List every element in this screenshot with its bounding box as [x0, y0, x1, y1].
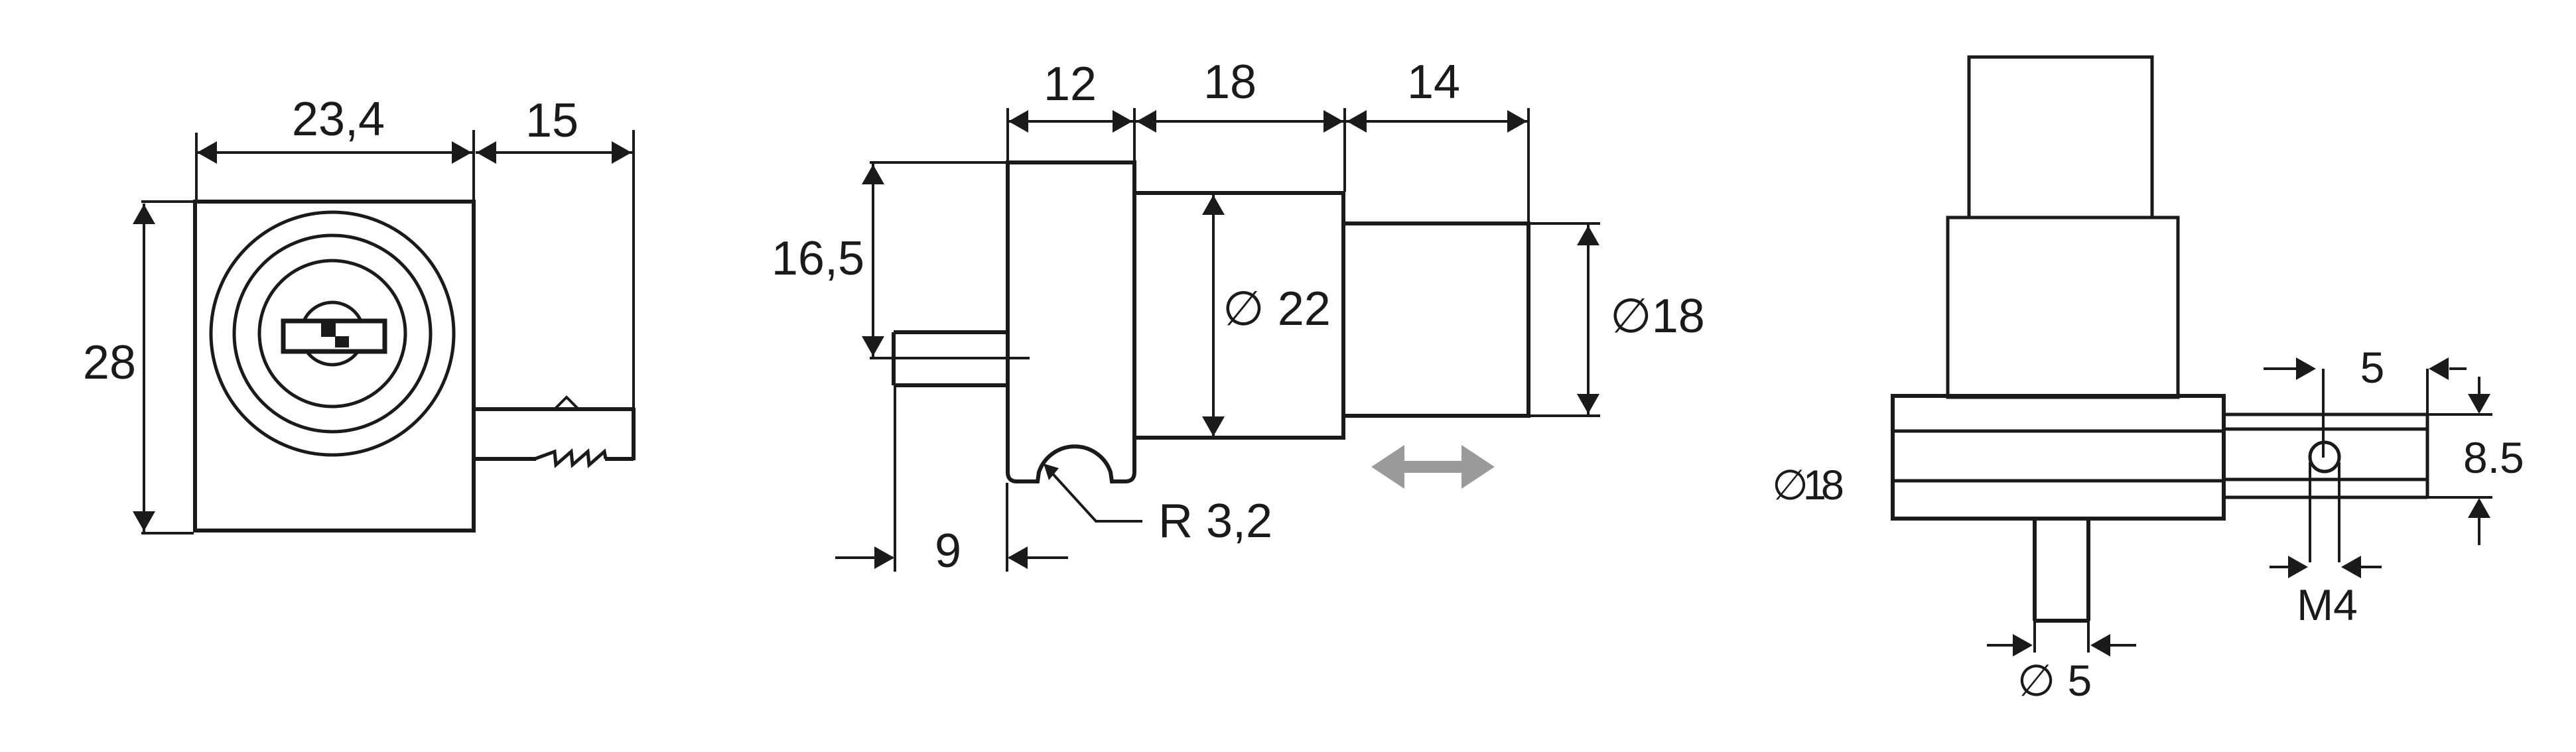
dim 5 centerline [2322, 369, 2325, 458]
front view: key slot upper ward block [321, 323, 336, 337]
top view: latch bar top extension [2427, 413, 2492, 416]
svg-text:∅ 5: ∅ 5 [2017, 656, 2092, 705]
dim 12 extension left [1006, 108, 1009, 161]
dim 18 left arrow [1136, 110, 1156, 133]
side view: latch tab mid line [870, 357, 1030, 359]
top view: key head block [1969, 57, 2152, 218]
front view: latch top edge [474, 407, 634, 411]
dim diam22 bottom arrow [1202, 416, 1225, 436]
dim diam18 line [1587, 225, 1590, 414]
R3.2 leader line [1049, 470, 1142, 521]
dim diam5 left tail [1987, 644, 2013, 647]
dim 18 right arrow [1323, 110, 1343, 133]
dim 14 right arrow [1507, 110, 1527, 133]
dim 9 extension left [894, 387, 896, 572]
top view: latch bar inner bottom line [2224, 478, 2427, 481]
top view: flange plate upper line [1893, 430, 2224, 433]
svg-text:18: 18 [1203, 56, 1256, 109]
dim diam22 line [1212, 194, 1215, 437]
R3.2 leader arrow [1044, 464, 1059, 480]
dim 15 left arrow [476, 141, 496, 164]
top view: cylinder housing block [1948, 218, 2178, 397]
dim 5 right tail [2449, 367, 2467, 370]
svg-text:9: 9 [935, 525, 961, 578]
svg-text:12: 12 [1044, 58, 1097, 111]
dim 28 line [143, 204, 145, 532]
dim diam18 bottom extension [1530, 414, 1600, 417]
dim 9 left arrow [874, 546, 894, 569]
dim 16,5 top extension [870, 161, 1006, 164]
gray travel double arrow [1371, 445, 1495, 489]
top view: M4 hole [2310, 442, 2339, 471]
svg-text:∅ 22: ∅ 22 [1223, 282, 1331, 336]
dim 12 left arrow [1008, 110, 1028, 133]
svg-text:R 3,2: R 3,2 [1158, 495, 1272, 548]
dim diam5 extension right [2087, 621, 2090, 653]
front view: outer bezel circle [211, 212, 454, 455]
dim 15 line [476, 151, 632, 154]
dim diam18 top arrow [1577, 225, 1599, 245]
svg-text:28: 28 [83, 336, 136, 389]
dim diam5 right arrow [2090, 634, 2110, 657]
dim 23,4 right arrow [452, 141, 472, 164]
dim 15 right arrow [612, 141, 632, 164]
top view: latch bar bottom edge [2224, 496, 2427, 499]
dim 16,5 top arrow [862, 164, 884, 184]
dim M4 left arrow [2288, 556, 2308, 578]
svg-text:8.5: 8.5 [2463, 433, 2524, 482]
svg-text:∅18: ∅18 [1772, 462, 1843, 509]
top view: latch bar inner top line [2224, 428, 2427, 431]
dim M4 right tail [2360, 566, 2382, 568]
dim 9 right arrow [1008, 546, 1028, 569]
dim 9 left tail [835, 556, 893, 559]
side view: latch tab bottom edge [894, 383, 1008, 387]
dim 28 top arrow [133, 204, 155, 224]
top view: shaft bottom edge [2035, 619, 2088, 623]
svg-text:5: 5 [2360, 343, 2385, 392]
side view: mounting flange with R3.2 notch [1008, 162, 1134, 481]
dim 15 extension line right [632, 130, 635, 408]
dim 18/14 shared extension [1343, 108, 1346, 192]
front view: latch right edge [632, 408, 636, 460]
dim 8.5 top arrow [2468, 394, 2490, 414]
dim M4 left tail [2270, 566, 2289, 568]
dim diam5 right tail [2110, 644, 2136, 647]
dim 23,4 extension line left [195, 133, 198, 200]
front view: latch bottom edge right segment [605, 457, 634, 461]
front view: latch serration [535, 452, 606, 465]
front view: key slot [283, 321, 385, 351]
svg-text:14: 14 [1407, 56, 1460, 109]
dim M4 right arrow [2341, 556, 2361, 578]
svg-text:16,5: 16,5 [772, 232, 864, 285]
dim 28 top extension [141, 200, 194, 203]
dim 14 left arrow [1347, 110, 1367, 133]
front view: latch bottom edge left segment [474, 457, 536, 461]
front view: inner bezel circle [259, 261, 405, 407]
dim 12/18 shared extension [1133, 108, 1136, 161]
front view: middle bezel circle [234, 235, 431, 432]
dim 5 left tail [2264, 367, 2297, 370]
dim 8.5 bottom tail [2478, 517, 2480, 545]
dim 23,4 / 15 shared extension line [472, 130, 475, 200]
top view: latch bar top edge [2224, 413, 2427, 416]
side view: latch tab left edge [892, 332, 896, 385]
side view: latch tab top edge [894, 330, 1008, 334]
dim 12 right arrow [1113, 110, 1132, 133]
front view: key slot lower ward block [335, 336, 349, 347]
dim diam18 bottom arrow [1577, 394, 1599, 414]
top view: flange plate [1893, 396, 2224, 519]
dim diam5 left arrow [2013, 634, 2033, 657]
dim 28 bottom extension [141, 532, 194, 534]
dim 9 extension right [1006, 483, 1008, 572]
dim 9 right tail [1009, 556, 1068, 559]
top view: flange plate lower line [1893, 479, 2224, 483]
dim M4 extension right [2338, 462, 2340, 562]
top view: latch bar right extension up [2426, 369, 2429, 414]
top dimension line [1008, 120, 1530, 123]
side view: front bezel cylinder diam 18 [1343, 223, 1528, 416]
dim 5 right arrow [2429, 357, 2449, 380]
dim 14 extension right [1527, 108, 1530, 222]
dim 23,4 line [196, 151, 472, 154]
svg-text:23,4: 23,4 [292, 93, 385, 146]
dim 5 left arrow [2296, 357, 2316, 380]
svg-text:∅18: ∅18 [1610, 290, 1705, 343]
dim 8.5 bottom arrow [2468, 498, 2490, 518]
top view: shaft right edge [2086, 519, 2090, 621]
top view: shaft left edge [2033, 519, 2037, 621]
dim 23,4 left arrow [197, 141, 217, 164]
svg-text:M4: M4 [2297, 580, 2358, 629]
dim diam22 top arrow [1202, 195, 1225, 215]
front view: lock body outline [195, 202, 474, 531]
front view: latch alignment notch [555, 397, 578, 409]
dim diam18 top extension [1530, 222, 1600, 225]
top view: latch bar right edge [2426, 414, 2429, 497]
svg-text:15: 15 [525, 94, 578, 147]
front view: cylinder core circle [301, 302, 364, 365]
dim M4 extension left [2309, 462, 2311, 562]
dim 16,5 line [872, 164, 874, 357]
dim 16,5 bottom arrow [862, 336, 884, 356]
top view: latch bar bottom extension [2427, 496, 2492, 499]
dim 8.5 top tail [2478, 377, 2480, 395]
dim diam5 extension left [2033, 621, 2036, 653]
dim 28 bottom arrow [133, 511, 155, 531]
side view: body cylinder diam 22 [1134, 193, 1343, 438]
